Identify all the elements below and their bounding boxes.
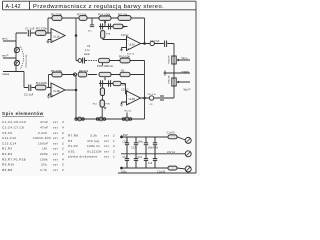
svg-text:-: - — [52, 85, 53, 89]
svg-text:100n: 100n — [138, 141, 144, 144]
svg-text:2: 2 — [62, 152, 64, 156]
svg-text:UL2B: UL2B — [129, 98, 136, 101]
svg-text:szt: szt — [53, 126, 58, 130]
svg-text:-: - — [128, 39, 129, 43]
svg-text:47uF: 47uF — [40, 120, 48, 124]
svg-text:szt: szt — [53, 163, 58, 167]
svg-text:C14: C14 — [138, 156, 143, 159]
svg-text:R3 220k: R3 220k — [36, 27, 47, 31]
svg-text:1/2UL2: 1/2UL2 — [121, 89, 129, 91]
svg-text:2: 2 — [113, 144, 115, 148]
svg-text:R8 22k: R8 22k — [79, 69, 89, 73]
svg-text:R5 220k: R5 220k — [51, 12, 62, 16]
svg-text:1M: 1M — [42, 147, 47, 151]
svg-text:2: 2 — [62, 147, 64, 151]
svg-text:Spis elementów: Spis elementów — [2, 111, 44, 116]
svg-text:Wy L: Wy L — [182, 56, 189, 60]
svg-text:R9,R10: R9,R10 — [2, 163, 14, 167]
svg-text:szt: szt — [104, 149, 109, 153]
svg-text:2,2u/16: 2,2u/16 — [167, 132, 176, 135]
svg-text:szt: szt — [53, 168, 58, 172]
svg-text:1u3: 1u3 — [148, 162, 153, 165]
svg-text:szt: szt — [53, 136, 58, 140]
svg-text:we L: we L — [2, 37, 8, 41]
svg-text:C7 4,7uF: C7 4,7uF — [150, 41, 160, 43]
svg-text:R4 220k: R4 220k — [36, 81, 47, 85]
svg-text:P3B 47k: P3B 47k — [169, 74, 171, 83]
svg-text:płytka drukowana: płytka drukowana — [68, 155, 97, 159]
svg-text:+15V: +15V — [121, 133, 128, 137]
svg-text:2,2nF: 2,2nF — [38, 131, 48, 135]
svg-text:R1,R2: R1,R2 — [2, 147, 12, 151]
svg-text:C13: C13 — [123, 156, 128, 159]
svg-text:C12: C12 — [131, 146, 136, 149]
svg-text:R10 10k: R10 10k — [119, 55, 130, 59]
svg-text:szt: szt — [53, 120, 58, 124]
svg-text:szt: szt — [53, 157, 58, 161]
svg-text:2: 2 — [62, 168, 64, 172]
svg-text:47nF: 47nF — [40, 126, 48, 130]
svg-text:100k lin: 100k lin — [87, 144, 100, 148]
svg-text:UL2A: UL2A — [129, 43, 136, 46]
svg-text:2: 2 — [62, 136, 64, 140]
svg-text:szt: szt — [104, 139, 109, 143]
svg-text:C1 1uF: C1 1uF — [25, 27, 35, 31]
svg-text:C5,C6: C5,C6 — [2, 131, 12, 135]
svg-text:2: 2 — [62, 163, 64, 167]
svg-text:2: 2 — [113, 134, 115, 138]
svg-text:R3,R4: R3,R4 — [2, 152, 12, 156]
svg-text:4: 4 — [62, 126, 64, 130]
svg-text:C10 4,7u: C10 4,7u — [147, 94, 157, 96]
svg-text:3,3k: 3,3k — [90, 134, 97, 138]
svg-text:100nF-63: 100nF-63 — [148, 146, 159, 149]
svg-text:C11,C12: C11,C12 — [2, 136, 16, 140]
svg-text:2: 2 — [62, 141, 64, 145]
svg-text:szt: szt — [53, 152, 58, 156]
svg-text:P3A 47k: P3A 47k — [168, 54, 171, 63]
svg-text:P1,P2: P1,P2 — [68, 144, 78, 148]
svg-text:-: - — [52, 31, 53, 35]
svg-text:we P: we P — [2, 54, 8, 58]
svg-text:R6,R8: R6,R8 — [2, 168, 12, 172]
svg-text:R6 220k: R6 220k — [51, 69, 62, 73]
svg-text:P2A: P2A — [106, 33, 111, 36]
svg-text:Gniazdo wej.: Gniazdo wej. — [25, 54, 28, 68]
svg-text:-: - — [128, 93, 129, 97]
svg-text:C1,C2,C9,C10: C1,C2,C9,C10 — [2, 120, 26, 124]
svg-text:P3: P3 — [68, 139, 72, 143]
svg-text:47k log: 47k log — [87, 139, 99, 143]
svg-text:szt: szt — [53, 131, 58, 135]
svg-text:4,7u: 4,7u — [85, 49, 90, 52]
svg-text:C11: C11 — [123, 141, 128, 144]
svg-text:100u: 100u — [121, 171, 127, 174]
svg-text:UL1B: UL1B — [53, 90, 60, 93]
svg-text:R7,R8: R7,R8 — [68, 134, 78, 138]
svg-text:24V 1A: 24V 1A — [167, 151, 175, 154]
svg-text:masa: masa — [2, 72, 9, 76]
svg-text:R14 1k: R14 1k — [125, 111, 133, 113]
svg-text:100k: 100k — [40, 157, 48, 161]
svg-text:P2B: P2B — [106, 104, 111, 106]
svg-text:100nF-63V: 100nF-63V — [33, 136, 52, 140]
svg-text:szt: szt — [104, 134, 109, 138]
svg-text:1: 1 — [113, 155, 115, 159]
svg-text:R5,R7,P1,P1B: R5,R7,P1,P1B — [2, 157, 26, 161]
svg-text:2: 2 — [62, 131, 64, 135]
svg-text:szt: szt — [104, 155, 109, 159]
svg-text:C13,C14: C13,C14 — [2, 141, 17, 145]
svg-text:22k: 22k — [41, 163, 47, 167]
svg-text:2,2u/16: 2,2u/16 — [157, 171, 166, 174]
svg-text:szt: szt — [53, 147, 58, 151]
svg-text:R7 22k: R7 22k — [77, 12, 87, 16]
svg-text:szt: szt — [104, 144, 109, 148]
svg-text:100uF: 100uF — [38, 141, 48, 145]
svg-text:4: 4 — [62, 157, 64, 161]
svg-text:Wy P: Wy P — [184, 88, 191, 92]
svg-text:A-142: A-142 — [6, 4, 21, 10]
svg-text:P1B 100k lin: P1B 100k lin — [97, 64, 114, 68]
svg-text:1: 1 — [113, 139, 115, 143]
svg-text:4,7k: 4,7k — [40, 168, 47, 172]
svg-text:ekran: ekran — [84, 53, 91, 56]
svg-text:2: 2 — [113, 149, 115, 153]
svg-text:C2 1uF: C2 1uF — [24, 93, 34, 97]
svg-text:Przedwzmacniacz z regulacją ba: Przedwzmacniacz z regulacją barwy stereo… — [33, 4, 164, 10]
svg-text:C3,C4,C7,C8: C3,C4,C7,C8 — [2, 126, 24, 130]
svg-text:UL1A: UL1A — [53, 35, 60, 38]
svg-text:4: 4 — [62, 120, 64, 124]
svg-text:R9 10k: R9 10k — [118, 12, 128, 16]
svg-text:1/2UL2: 1/2UL2 — [121, 35, 129, 37]
svg-text:220k: 220k — [40, 152, 48, 156]
svg-text:P1A 100k: P1A 100k — [98, 12, 111, 16]
svg-text:masa: masa — [182, 70, 189, 74]
svg-text:US1: US1 — [68, 149, 75, 153]
svg-text:UL1111N: UL1111N — [87, 149, 102, 153]
svg-text:szt: szt — [53, 141, 58, 145]
